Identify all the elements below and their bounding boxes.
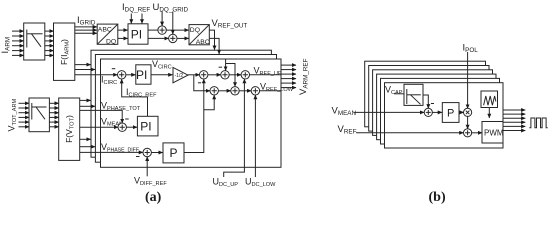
wire C to E (229, 74, 241, 76)
svg-text:DQ: DQ (190, 27, 200, 34)
wire SB1 to P (432, 111, 442, 113)
sign minus at S4 (125, 118, 129, 120)
block DQ/ABC transform (189, 25, 210, 46)
summing junction S4 (118, 123, 126, 131)
wire PWM output arrows x6 (503, 110, 525, 131)
phase-layer rectangle front (a) (101, 59, 282, 167)
svg-text:DQ: DQ (106, 38, 116, 45)
controller PI grid-current (128, 24, 148, 44)
filter block U3 (capacitor voltage low-pass) (404, 84, 423, 105)
wire VMEAN into S4 (80, 126, 118, 128)
wire filter into SB1 top (423, 95, 428, 108)
wire UDQ_GRID into S1 (161, 12, 163, 26)
wire VCAP to filter (394, 93, 404, 95)
svg-text:VDIFF_REF: VDIFF_REF (134, 176, 167, 187)
phase-layer rectangle back (a) (91, 50, 271, 157)
node UDC_LOW label and wire into F (254, 95, 256, 177)
wire ICIRC_REF from PI2 into S3 (122, 79, 148, 116)
svg-text:VMEAN: VMEAN (332, 106, 357, 118)
node VTOT_ARM input label (7, 99, 18, 132)
svg-text:UDQ_GRID: UDQ_GRID (153, 2, 189, 14)
wire gain branch to sum B (194, 75, 210, 91)
svg-text:-1/2: -1/2 (175, 73, 184, 79)
node UDC_UP label and wire into E (224, 79, 245, 177)
wire S5 to P (151, 152, 163, 154)
wire VREF into sum SB2 (356, 132, 463, 134)
summing junction S3 (118, 71, 126, 79)
sign minus at A (198, 82, 201, 84)
multiplier junction X1 (464, 108, 472, 116)
controller P phase difference (163, 143, 184, 163)
svg-text:IPOL: IPOL (463, 43, 479, 55)
svg-text:VTOT_ARM: VTOT_ARM (7, 99, 18, 132)
wire IARM input arrows x6 (12, 31, 24, 55)
wire VDIFF_REF into S5 (146, 157, 148, 177)
wire gain to sum A (188, 74, 200, 76)
block F(VTOT) (59, 98, 80, 160)
summing junction S2 (169, 34, 177, 42)
wire VPHASE_TOT stubs to back and mid layers (80, 99, 91, 101)
svg-text:P: P (170, 146, 178, 160)
sign minus at S3 (112, 68, 116, 70)
wire IGRID x3 to ABC/DQ (75, 27, 97, 33)
filter block U1 (arm current low-pass) (24, 23, 45, 60)
wire F(IARM) stubs to back and mid layers (75, 64, 91, 66)
wire VREF_OUT bus branch into sum D (226, 64, 235, 87)
wire PI to sum S1 (148, 29, 158, 31)
summing junction S1 (158, 26, 166, 34)
wire P to multiplier (459, 111, 464, 113)
summing junction SB1 (424, 108, 432, 116)
wire VARM_REF output arrows x6 (281, 65, 296, 88)
svg-text:(b): (b) (429, 190, 446, 205)
svg-text:P: P (447, 107, 454, 119)
controller P (b) (442, 103, 459, 123)
controller PI total voltage (137, 116, 158, 136)
wire ABC/DQ to PI rails (118, 30, 128, 38)
wire carrier into PWM (488, 108, 490, 118)
summing junction A (200, 71, 208, 79)
svg-text:IGRID: IGRID (77, 15, 96, 27)
block ABC/DQ transform (97, 24, 118, 45)
wire S2 to DQ/ABC (177, 37, 189, 39)
wire A to C (208, 74, 221, 76)
sign minus at SB1 (431, 103, 434, 105)
sign minus at C (219, 66, 223, 68)
wire S4 to PI2 (126, 126, 137, 128)
wire VPHASE_DIFF stubs to back and mid layers (80, 138, 91, 140)
wire VREF_OUT q to mid layer (209, 38, 219, 54)
summing junction D (231, 87, 239, 95)
wire VREF_OUT bus into sum C (225, 59, 227, 71)
wire IPOL into multiplier (467, 52, 469, 109)
wire D to F (239, 90, 251, 92)
block PWM (482, 122, 504, 144)
svg-text:PWM: PWM (484, 129, 504, 138)
svg-text:UDC_LOW: UDC_LOW (245, 177, 276, 188)
wire UDQ_GRID into S2 (172, 12, 174, 35)
wire P controller up into A and B (184, 79, 204, 152)
wire B to D (218, 90, 231, 92)
phase-layer rectangle middle (a) (95, 55, 276, 163)
wire VMEAN into sum SB1 (354, 111, 424, 113)
wire S1 to DQ/ABC (166, 29, 189, 31)
filter block U2 (arm voltage low-pass) (29, 98, 49, 132)
summing junction C (221, 71, 229, 79)
wire PI to sum S2 (148, 37, 169, 39)
carrier generator block (481, 91, 498, 108)
gain block -1/2 (173, 67, 188, 82)
summing junction F (251, 87, 259, 95)
svg-text:VARM_REF: VARM_REF (298, 58, 310, 95)
wire S3 to PI3 (126, 74, 136, 76)
symbol gate pulse waveform (529, 118, 547, 128)
summing junction SB2 (464, 129, 472, 137)
wire filter to F(IARM) x6 (45, 31, 54, 55)
svg-text:(a): (a) (145, 190, 162, 205)
block F(IARM) (54, 23, 75, 80)
svg-text:IARM: IARM (0, 37, 12, 54)
arm-layer rectangles x6 (b) (365, 61, 503, 148)
node VARM_REF label (298, 58, 310, 95)
summing junction B (210, 87, 218, 95)
node IARM input label (0, 37, 12, 54)
wire PI3 to gain (151, 74, 172, 76)
wire VREF_OUT d to back layer (209, 30, 214, 50)
svg-text:PI: PI (131, 27, 142, 41)
svg-text:VREF_OUT: VREF_OUT (212, 18, 248, 30)
svg-text:VREF: VREF (338, 124, 357, 136)
wire VPHASE_TOT into S4 top (80, 110, 123, 123)
node VREF_LOW label and wire (259, 90, 281, 92)
svg-text:ABC: ABC (98, 26, 112, 33)
wire filter to F(VTOT) x6 (49, 103, 58, 127)
wire multiplier into SB2 (467, 116, 469, 129)
node ICIRC line and label (75, 74, 118, 76)
wire SB2 to PWM (471, 132, 482, 134)
summing junction E (241, 71, 249, 79)
svg-text:PI: PI (136, 68, 147, 82)
wire VPHASE_DIFF into S5 (80, 151, 143, 153)
svg-text:IDQ_REF: IDQ_REF (122, 2, 150, 14)
node VREF_UP label and wire (249, 74, 281, 76)
svg-text:ABC: ABC (196, 39, 210, 46)
sign minus at S5 (136, 156, 140, 158)
svg-text:UDC_UP: UDC_UP (213, 177, 239, 188)
wire IDQ_REF arrows into PI (131, 14, 142, 24)
wire VTOT input arrows x6 (19, 103, 30, 127)
svg-text:PI: PI (140, 119, 151, 133)
controller PI circulating current (136, 65, 151, 84)
summing junction S5 (143, 148, 151, 156)
